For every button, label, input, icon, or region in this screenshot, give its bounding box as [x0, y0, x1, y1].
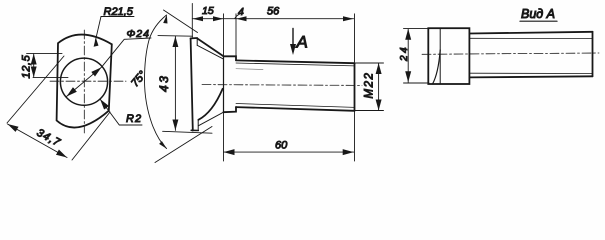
circle Ф24	[60, 58, 107, 105]
cone top intersection line	[197, 45, 223, 59]
top dimension line	[192, 18, 353, 20]
head barrel outline	[57, 35, 112, 128]
dim 12,5 top extension	[27, 53, 62, 55]
faint line at thread start	[236, 68, 263, 71]
collar bottom edge	[224, 107, 237, 112]
75 deg arc	[145, 15, 167, 149]
arrow at 192 left	[193, 16, 204, 21]
axis center line	[202, 84, 362, 87]
dim M22 bottom extension	[355, 110, 384, 112]
dim 24 line	[407, 29, 409, 82]
arrow R21,5	[94, 38, 99, 47]
arrow at 223 right	[213, 16, 223, 21]
dim 60 line	[224, 151, 354, 153]
dim M22 line	[378, 63, 380, 111]
svg-text:M22: M22	[364, 72, 376, 99]
arrow at 236 pointing right-to-left outside	[236, 16, 246, 21]
head inner edge	[439, 28, 441, 84]
arrow at 353 right	[343, 16, 354, 21]
shaft end	[592, 32, 594, 77]
thread minor bottom	[469, 72, 592, 74]
top dim extension x236	[235, 14, 237, 60]
head left face	[191, 38, 193, 130]
top dim extension x192	[191, 4, 193, 38]
top dim extension x223.5	[223, 14, 225, 56]
axis center line	[422, 53, 599, 54]
dim 43 line	[174, 36, 176, 130]
dim 43 bottom extension	[163, 131, 212, 133]
collar left edge	[223, 56, 225, 112]
shaft outer top	[469, 32, 592, 34]
head flat/cone intersection curve	[433, 50, 441, 84]
bottom dim extension x223.5	[223, 112, 225, 161]
svg-text:24: 24	[399, 45, 410, 62]
svg-text:R21,5: R21,5	[104, 6, 134, 18]
head bottom rim	[191, 129, 198, 131]
svg-text:60: 60	[275, 139, 288, 151]
view arrow A head	[290, 44, 296, 55]
head top rim edge	[196, 38, 198, 45]
svg-text:12,5: 12,5	[21, 54, 33, 78]
view arrow A line	[292, 28, 294, 45]
dim 34,7 extension line 2	[72, 112, 110, 160]
horizontal center line	[50, 80, 126, 82]
svg-text:15: 15	[202, 5, 214, 17]
75 deg extension line bottom	[155, 127, 212, 163]
dim 34,7 line with arrows	[8, 124, 68, 158]
svg-text:56: 56	[267, 6, 280, 18]
75 deg extension line top	[164, 10, 198, 33]
leader R21,5	[95, 17, 134, 42]
underline Vid A	[520, 20, 557, 22]
cone top silhouette	[197, 38, 223, 56]
shaft outer bottom	[236, 107, 355, 111]
dim 24 top extension	[404, 28, 430, 30]
svg-text:75°: 75°	[129, 69, 149, 90]
top dim extension x354	[354, 14, 356, 62]
cone bottom curve	[198, 89, 222, 120]
dim 12,5 bottom extension	[33, 76, 68, 78]
thread minor bottom	[236, 104, 355, 108]
diameter line Ф24 with arrows	[67, 67, 102, 96]
dim 34,7 extension line 1	[7, 56, 64, 123]
head top rim	[191, 37, 198, 39]
collar top edge	[224, 56, 237, 60]
leader Ф24	[102, 38, 152, 67]
75 arc bottom arrow	[159, 141, 167, 149]
svg-text:Вид A: Вид A	[521, 7, 555, 21]
thread minor top	[236, 63, 355, 66]
thread minor top	[469, 37, 592, 39]
svg-text:34,7: 34,7	[35, 127, 63, 150]
dim 43 top extension	[158, 35, 193, 38]
dim 12,5 line with arrows	[33, 54, 35, 78]
shaft outer bottom	[469, 76, 592, 77]
bottom dim extension x354	[354, 111, 356, 161]
75 arc top arrow	[163, 15, 167, 24]
vertical center line	[83, 30, 85, 133]
svg-text:R2: R2	[126, 113, 142, 125]
shaft outer top	[236, 60, 355, 63]
dim 24 bottom extension	[404, 82, 430, 84]
head rectangle	[428, 28, 469, 84]
cone bottom intersection line	[198, 112, 223, 126]
svg-text:A: A	[296, 33, 308, 52]
svg-text:4: 4	[238, 6, 244, 18]
dim M22 top extension	[355, 62, 384, 64]
svg-text:43: 43	[157, 74, 171, 92]
shaft end	[354, 63, 356, 111]
svg-text:Φ24: Φ24	[127, 28, 150, 40]
leader for 4	[235, 14, 240, 18]
leader R2	[100, 99, 142, 125]
head bottom rim edge	[197, 120, 199, 131]
